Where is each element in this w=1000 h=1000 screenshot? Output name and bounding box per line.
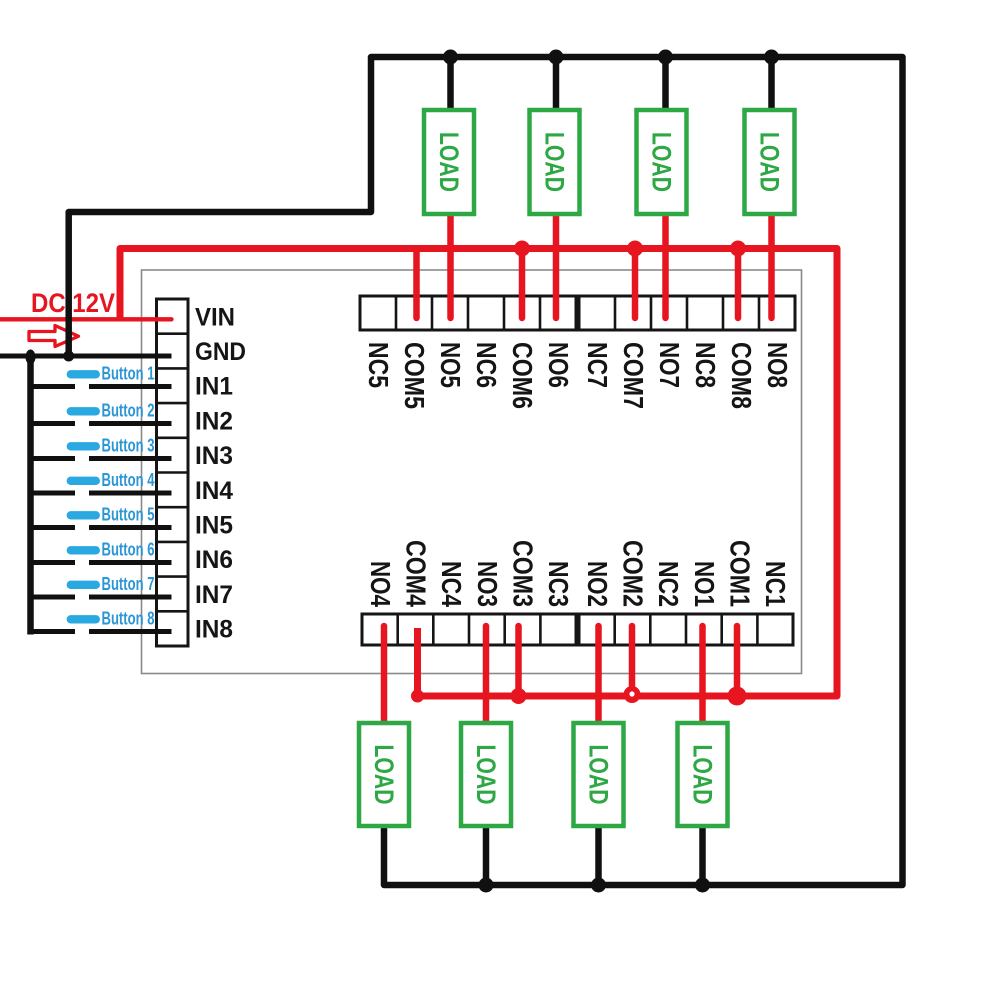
svg-text:COM2: COM2: [618, 540, 649, 607]
svg-text:COM5: COM5: [399, 342, 430, 409]
svg-text:LOAD: LOAD: [688, 745, 718, 805]
terminal label COM7: [618, 342, 649, 409]
wire: LOAD to NO5 terminal: [447, 214, 454, 318]
terminal label NO2: [582, 561, 613, 607]
junction dot: LOAD 6 on top rail: [549, 50, 564, 65]
wire: top rail to LOAD 7: [662, 57, 669, 110]
svg-text:IN1: IN1: [195, 373, 233, 401]
terminal label COM1: [725, 540, 756, 607]
terminal label NO5: [435, 342, 466, 388]
terminal label COM5: [399, 342, 430, 409]
svg-text:DC 12V: DC 12V: [31, 288, 115, 318]
junction dot: COM3 on +12V bus: [511, 688, 527, 704]
terminal label NO8: [762, 342, 793, 388]
svg-text:GND: GND: [195, 338, 246, 366]
wire: main ground/load loop (GND up-over top rail, right rail, bottom rail to LOAD): [69, 57, 903, 885]
terminal label NC3: [543, 561, 574, 607]
left pin header strip (VIN,GND,IN1-IN8): [157, 299, 189, 646]
wire: +12V COM bus (up from VIN wire, across top, down right side, across bottom, into COM4): [120, 249, 837, 697]
pushbutton S2 (Button 2): [31, 407, 172, 423]
load resistor LOAD (ch3): [461, 723, 511, 826]
wire: top rail to LOAD 6: [553, 57, 560, 110]
wire: NO3 terminal to LOAD: [483, 626, 490, 723]
terminal label NC4: [436, 561, 467, 607]
svg-text:Button 8: Button 8: [102, 609, 155, 629]
terminal label NO1: [689, 561, 720, 607]
junction dot: LOAD 7 on top rail: [658, 50, 673, 65]
terminal label NC7: [582, 342, 613, 388]
svg-text:Button 1: Button 1: [102, 364, 155, 384]
svg-text:LOAD: LOAD: [647, 132, 677, 192]
wire: +12V input to VIN pin: [0, 317, 172, 321]
wire: bus to COM5 terminal: [413, 249, 420, 319]
wire: NO4 terminal to LOAD: [381, 626, 388, 723]
junction dot: LOAD 8 on top rail: [764, 50, 779, 65]
svg-text:NO6: NO6: [543, 342, 574, 388]
svg-text:VIN: VIN: [195, 303, 235, 331]
svg-text:NO1: NO1: [689, 561, 720, 607]
load resistor LOAD (ch6): [530, 110, 580, 214]
junction dot (open) COM2 on +12V bus: [624, 686, 641, 703]
svg-text:NO8: NO8: [762, 342, 793, 388]
junction dot: COM6 on +12V bus: [514, 241, 530, 257]
wire: COM1 terminal to bus: [734, 626, 741, 696]
wire: COM3 terminal to bus: [515, 626, 522, 696]
svg-text:Button 5: Button 5: [102, 505, 155, 525]
wire: top rail to LOAD 8: [768, 57, 775, 110]
terminal label NO4: [365, 561, 396, 607]
svg-text:NC1: NC1: [760, 561, 791, 607]
junction dot: COM4 bus corner: [411, 690, 424, 703]
terminal label NO6: [543, 342, 574, 388]
svg-text:IN3: IN3: [195, 442, 233, 470]
svg-text:NC8: NC8: [690, 342, 721, 388]
svg-text:COM1: COM1: [725, 540, 756, 607]
terminal label NC8: [690, 342, 721, 388]
wire: LOAD 3 to bottom rail: [483, 826, 490, 885]
terminal label COM8: [726, 342, 757, 409]
wire: bus to COM8 terminal: [735, 249, 742, 319]
svg-text:LOAD: LOAD: [540, 132, 570, 192]
svg-text:LOAD: LOAD: [584, 745, 614, 805]
bottom terminal block (relay 3-4): [362, 614, 576, 645]
pushbutton S5 (Button 5): [31, 511, 172, 527]
top terminal block (relay 5-6): [360, 296, 576, 330]
svg-text:NC7: NC7: [582, 342, 613, 388]
pushbutton S6 (Button 6): [31, 546, 172, 562]
svg-text:IN2: IN2: [195, 407, 233, 435]
terminal label NC5: [363, 342, 394, 388]
load resistor LOAD (ch2): [574, 723, 624, 826]
junction dot: LOAD 2 on bottom rail: [591, 878, 606, 893]
wire: LOAD 1 to bottom rail: [699, 826, 706, 885]
junction dot: LOAD 5 on top rail: [443, 50, 458, 65]
junction dot: COM1 on +12V bus: [728, 687, 747, 706]
terminal label COM6: [507, 342, 538, 409]
svg-text:NO3: NO3: [472, 561, 503, 607]
junction dot: COM8 on +12V bus: [730, 241, 746, 257]
wire: NO1 terminal to LOAD: [699, 626, 706, 723]
svg-text:IN5: IN5: [195, 512, 233, 540]
svg-text:LOAD: LOAD: [471, 745, 501, 805]
wire: LOAD to NO7 terminal: [662, 214, 669, 318]
wire: COM2 terminal to bus: [629, 626, 636, 696]
pushbutton S3 (Button 3): [31, 442, 172, 458]
svg-text:NC4: NC4: [436, 561, 467, 607]
svg-text:NC3: NC3: [543, 561, 574, 607]
load resistor LOAD (ch4): [359, 723, 409, 826]
wire: NO2 terminal to LOAD: [595, 626, 602, 723]
wire: LOAD to NO8 terminal: [768, 214, 775, 318]
terminal label NC1: [760, 561, 791, 607]
supply input arrow: [29, 326, 79, 347]
wire: bus to COM6 terminal: [519, 249, 526, 319]
svg-text:IN7: IN7: [195, 581, 233, 609]
svg-text:NO2: NO2: [582, 561, 613, 607]
pushbutton S7 (Button 7): [31, 581, 172, 597]
svg-text:LOAD: LOAD: [434, 132, 464, 192]
svg-text:Button 3: Button 3: [102, 436, 155, 456]
relay module board outline: [142, 270, 802, 674]
terminal label NC2: [653, 561, 684, 607]
bottom terminal block (relay 1-2): [579, 614, 793, 645]
load resistor LOAD (ch1): [678, 723, 728, 826]
svg-text:LOAD: LOAD: [369, 745, 399, 805]
terminal label COM4: [401, 540, 432, 607]
top terminal block (relay 7-8): [579, 296, 795, 330]
svg-text:Button 2: Button 2: [102, 401, 155, 421]
svg-text:NO4: NO4: [365, 561, 396, 607]
terminal label NO3: [472, 561, 503, 607]
junction dot: COM7 on +12V bus: [627, 241, 643, 257]
svg-text:NO7: NO7: [654, 342, 685, 388]
svg-text:COM8: COM8: [726, 342, 757, 409]
terminal label COM2: [618, 540, 649, 607]
svg-text:Button 6: Button 6: [102, 540, 155, 560]
pushbutton S8 (Button 8): [31, 615, 172, 631]
svg-text:COM4: COM4: [401, 540, 432, 607]
svg-text:NC5: NC5: [363, 342, 394, 388]
wire: bus to COM7 terminal: [632, 249, 639, 319]
svg-text:IN4: IN4: [195, 477, 233, 505]
svg-text:Button 7: Button 7: [102, 574, 155, 594]
svg-text:Button 4: Button 4: [102, 470, 155, 490]
svg-text:NC2: NC2: [653, 561, 684, 607]
junction dot: LOAD 3 on bottom rail: [479, 878, 494, 893]
svg-text:IN8: IN8: [195, 616, 233, 644]
pushbutton S1 (Button 1): [31, 370, 172, 386]
wire: LOAD 2 to bottom rail: [595, 826, 602, 885]
wire: button common bus (left vertical): [27, 356, 34, 635]
terminal label COM3: [508, 540, 539, 607]
terminal label NO7: [654, 342, 685, 388]
load resistor LOAD (ch5): [424, 110, 474, 214]
svg-text:NC6: NC6: [471, 342, 502, 388]
load resistor LOAD (ch8): [745, 110, 795, 214]
svg-text:NO5: NO5: [435, 342, 466, 388]
wire: LOAD to NO6 terminal: [553, 214, 560, 318]
junction dot: LOAD 1 on bottom rail: [695, 878, 710, 893]
svg-text:COM7: COM7: [618, 342, 649, 409]
wire: GND pin to supply return: [0, 354, 172, 359]
junction dot: button bus on GND wire: [26, 350, 36, 365]
svg-text:COM6: COM6: [507, 342, 538, 409]
svg-text:LOAD: LOAD: [755, 132, 785, 192]
load resistor LOAD (ch7): [637, 110, 687, 214]
terminal label NC6: [471, 342, 502, 388]
pushbutton S4 (Button 4): [31, 477, 172, 493]
svg-text:IN6: IN6: [195, 546, 233, 574]
svg-text:COM3: COM3: [508, 540, 539, 607]
wire: top rail to LOAD 5: [447, 57, 454, 110]
junction dot: loop drop on GND wire: [63, 351, 74, 362]
